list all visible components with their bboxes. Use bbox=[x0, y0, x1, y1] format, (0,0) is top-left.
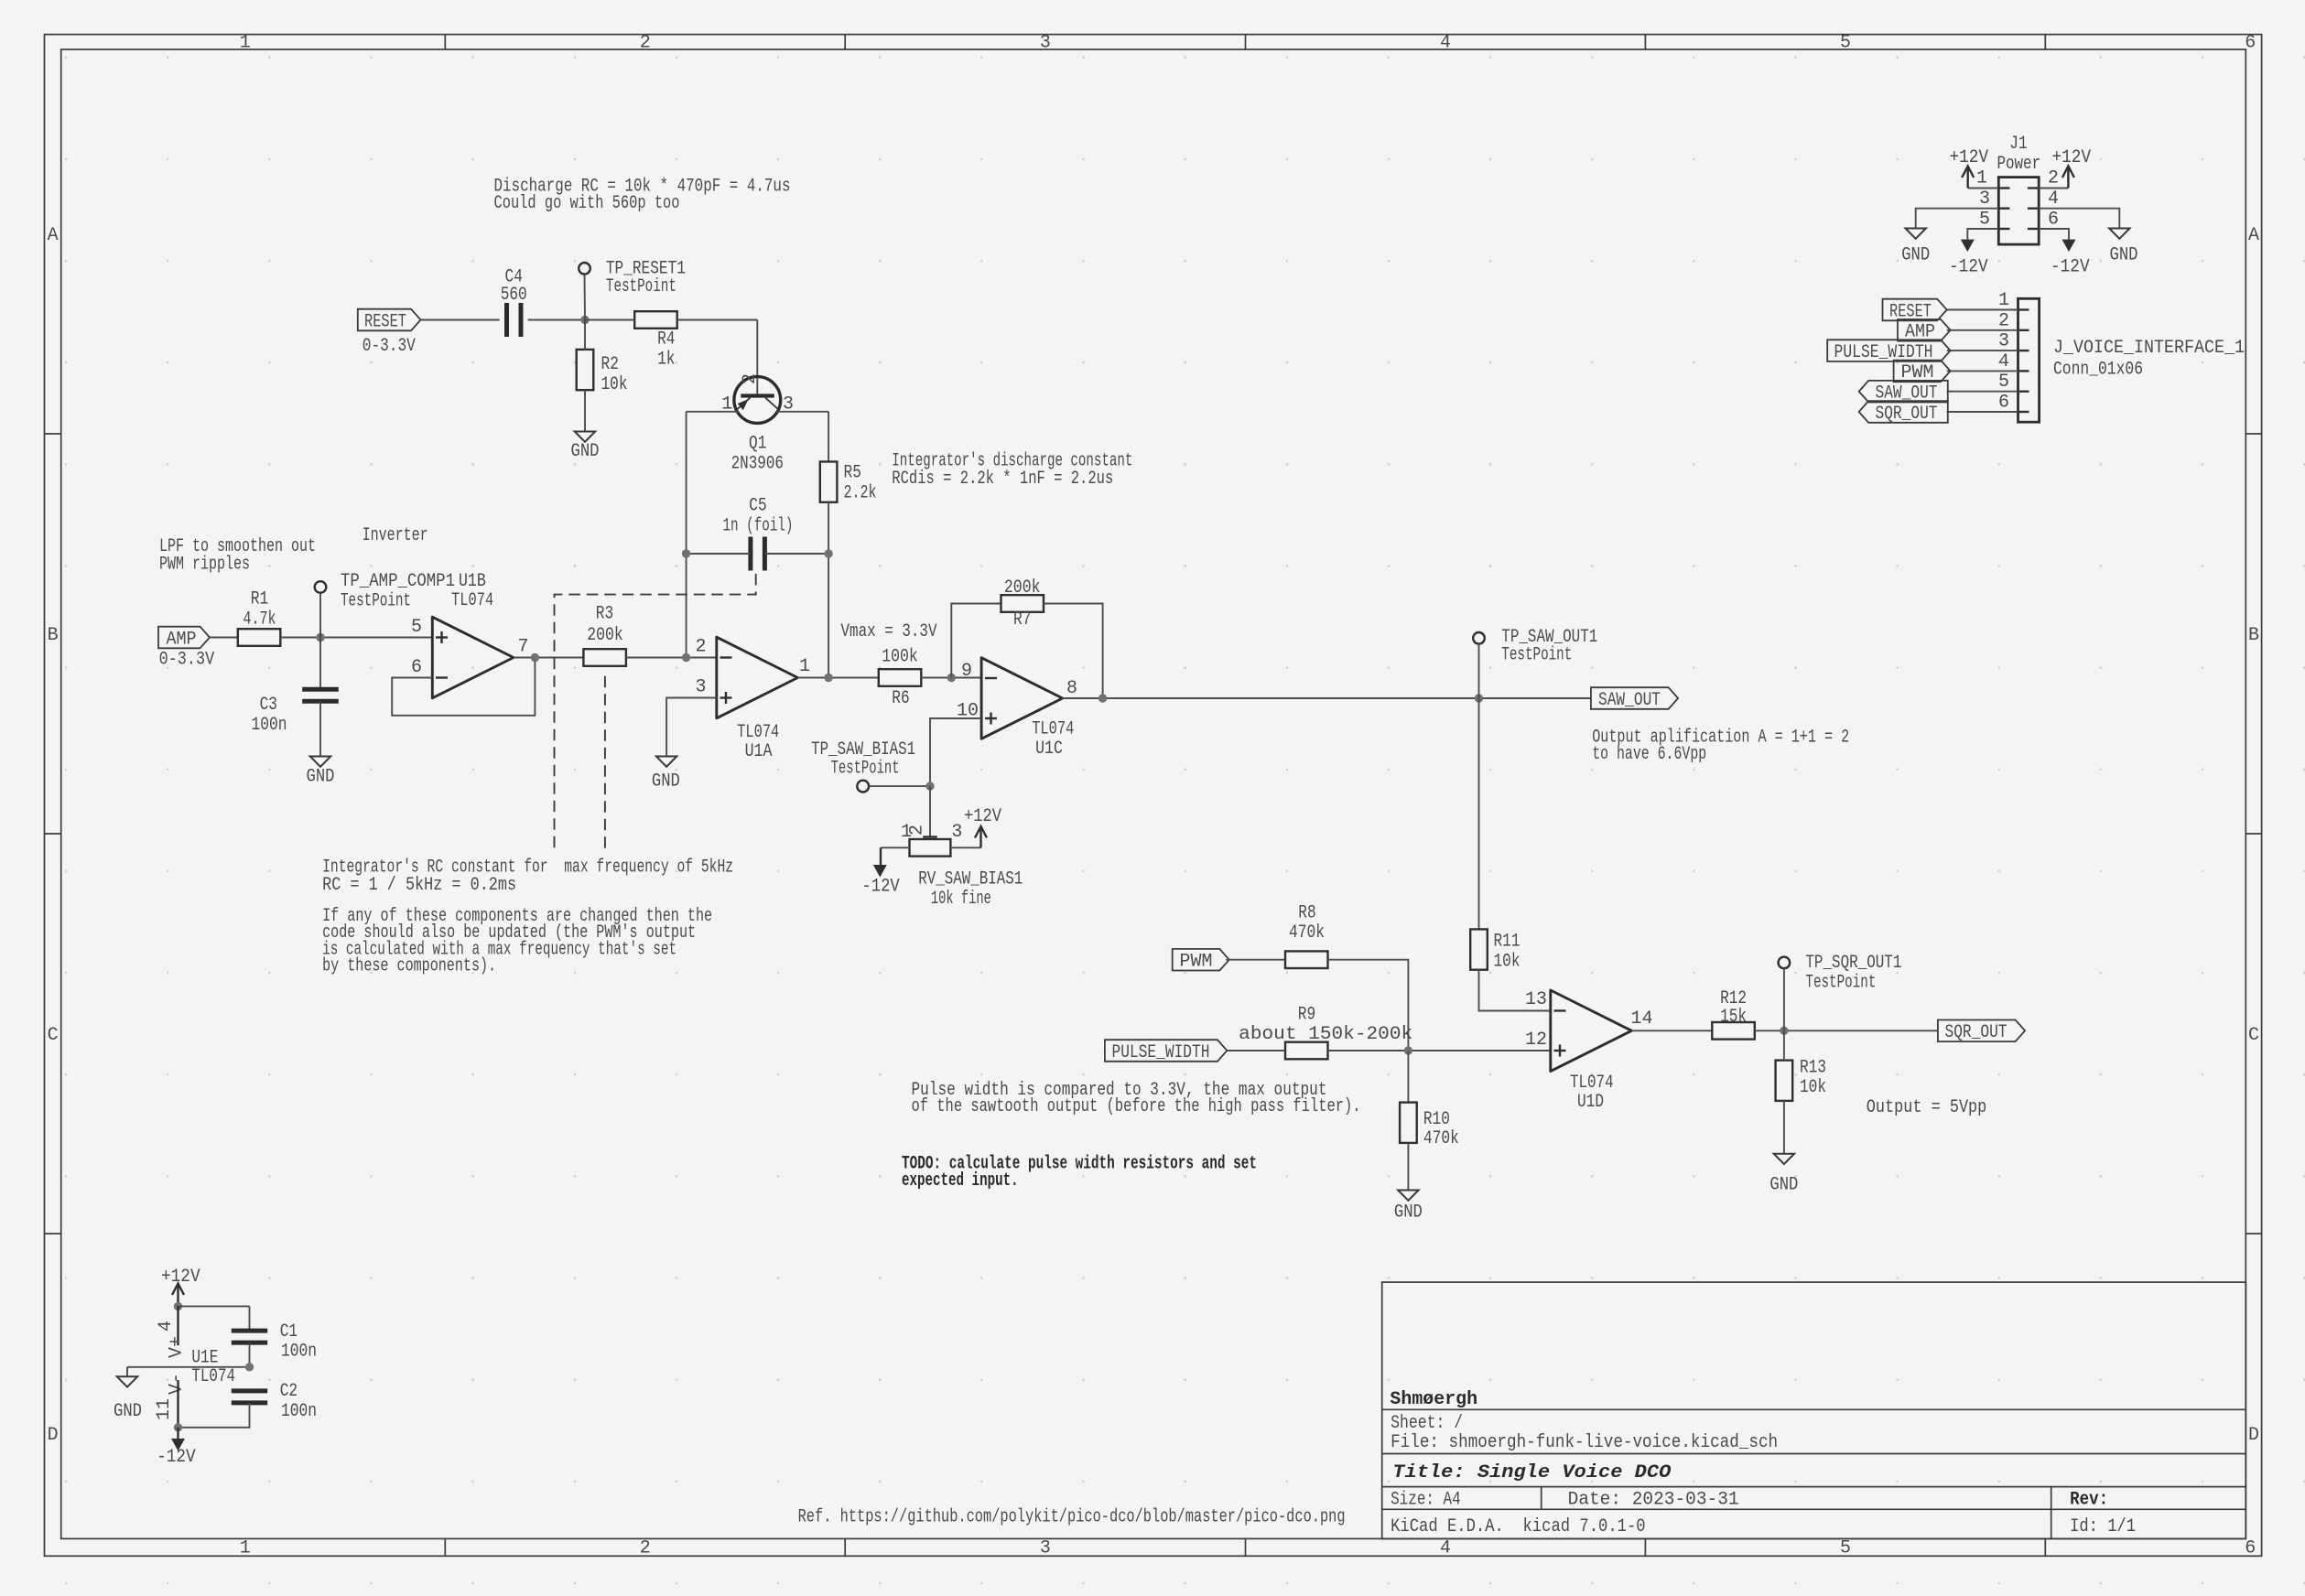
capacitor C1 bbox=[232, 1329, 267, 1333]
svg-text:Q1: Q1 bbox=[749, 434, 766, 455]
svg-text:R1: R1 bbox=[251, 589, 268, 610]
svg-text:J1: J1 bbox=[2009, 134, 2027, 155]
node +12V junction bbox=[174, 1302, 182, 1310]
node R3 out bbox=[682, 653, 690, 662]
svg-text:15k: 15k bbox=[1720, 1007, 1747, 1028]
svg-text:RC = 1 / 5kHz = 0.2ms: RC = 1 / 5kHz = 0.2ms bbox=[322, 875, 516, 896]
svg-text:10k fine: 10k fine bbox=[931, 889, 991, 910]
node R6 out bbox=[947, 674, 956, 682]
svg-text:D: D bbox=[2248, 1425, 2259, 1446]
svg-text:D: D bbox=[48, 1425, 59, 1446]
wire C5 left bbox=[687, 553, 751, 555]
wire AMP to R1 bbox=[210, 637, 238, 639]
wire R12 to SQR_OUT bbox=[1755, 1030, 1938, 1031]
wire emitter net down to C5 bbox=[686, 412, 687, 657]
op-amp U1B TL074 bbox=[432, 617, 514, 698]
svg-text:Output = 5Vpp: Output = 5Vpp bbox=[1867, 1097, 1987, 1118]
wire J1 pin4 GND bbox=[2039, 209, 2119, 229]
wire R11 to U1D pin13 bbox=[1479, 970, 1551, 1011]
svg-text:J_VOICE_INTERFACE_1: J_VOICE_INTERFACE_1 bbox=[2053, 338, 2245, 359]
svg-text:RV_SAW_BIAS1: RV_SAW_BIAS1 bbox=[918, 869, 1023, 890]
svg-text:Could go with 560p too: Could go with 560p too bbox=[494, 193, 680, 214]
power +12V right bbox=[2067, 168, 2069, 189]
power +12V left bbox=[1966, 168, 1968, 189]
svg-text:5: 5 bbox=[1840, 1538, 1851, 1559]
svg-text:-12V: -12V bbox=[1949, 257, 1988, 278]
svg-text:R11: R11 bbox=[1494, 932, 1520, 953]
global label RESET bbox=[358, 309, 421, 331]
svg-text:3: 3 bbox=[1040, 32, 1051, 53]
resistor R6 bbox=[879, 669, 922, 686]
svg-text:R9: R9 bbox=[1298, 1005, 1315, 1026]
svg-text:2: 2 bbox=[2048, 168, 2059, 189]
resistor R1 bbox=[238, 629, 281, 646]
svg-text:3: 3 bbox=[951, 822, 962, 843]
svg-text:TestPoint: TestPoint bbox=[341, 591, 411, 612]
svg-text:1k: 1k bbox=[657, 350, 675, 371]
ground J1 right bbox=[2109, 229, 2129, 239]
wire junction down to R10 bbox=[1407, 1051, 1409, 1103]
title block bbox=[1382, 1282, 2246, 1538]
svg-text:1n (foil): 1n (foil) bbox=[723, 516, 794, 537]
svg-text:TL074: TL074 bbox=[191, 1366, 235, 1387]
svg-text:GND: GND bbox=[652, 771, 680, 792]
wire pot pin1 to -12V bbox=[881, 847, 910, 848]
svg-text:GND: GND bbox=[1769, 1175, 1798, 1196]
potentiometer RV_SAW_BIAS1 bbox=[910, 839, 951, 857]
testpoint TP_RESET1 bbox=[579, 263, 590, 275]
svg-text:470k: 470k bbox=[1423, 1128, 1459, 1149]
svg-text:SAW_OUT: SAW_OUT bbox=[1598, 690, 1661, 711]
power -12V at pot bbox=[873, 865, 887, 878]
wire R9 to U1D pin12 bbox=[1328, 1050, 1551, 1051]
node mid junction bbox=[245, 1363, 254, 1371]
testpoint TP_AMP_COMP1 bbox=[315, 581, 327, 593]
svg-text:100n: 100n bbox=[281, 1401, 317, 1422]
global label AMP bbox=[158, 627, 210, 649]
resistor R10 bbox=[1400, 1103, 1417, 1143]
svg-text:-12V: -12V bbox=[2051, 257, 2090, 278]
hier label SAW_OUT bbox=[1859, 381, 1948, 403]
svg-text:0-3.3V: 0-3.3V bbox=[363, 336, 416, 357]
resistor R7 bbox=[1001, 595, 1044, 612]
ground under R10 bbox=[1398, 1191, 1418, 1201]
wire U1A output bbox=[797, 677, 878, 679]
svg-text:5: 5 bbox=[1840, 32, 1851, 53]
svg-text:Date: 2023-03-31: Date: 2023-03-31 bbox=[1568, 1490, 1739, 1511]
svg-text:by these components).: by these components). bbox=[322, 956, 496, 977]
svg-text:GND: GND bbox=[114, 1401, 142, 1422]
svg-text:4.7k: 4.7k bbox=[243, 609, 276, 631]
wire R7 feedback right bbox=[1044, 604, 1103, 699]
svg-text:A: A bbox=[2248, 225, 2259, 246]
svg-text:1: 1 bbox=[901, 822, 912, 843]
capacitor C3 bbox=[319, 638, 321, 690]
svg-text:SQR_OUT: SQR_OUT bbox=[1945, 1022, 2007, 1043]
svg-text:Title: Single Voice DCO: Title: Single Voice DCO bbox=[1392, 1462, 1671, 1483]
svg-text:GND: GND bbox=[1901, 245, 1930, 266]
svg-text:V+: V+ bbox=[167, 1336, 188, 1358]
global label PWM bbox=[1173, 949, 1229, 971]
wire Q1 emitter left bbox=[687, 411, 739, 413]
svg-text:V-: V- bbox=[167, 1373, 188, 1395]
capacitor C5 bbox=[748, 537, 752, 571]
node bias junction bbox=[925, 782, 934, 790]
power -12V U1E bbox=[177, 1428, 179, 1439]
svg-text:13: 13 bbox=[1525, 989, 1547, 1010]
power +12V at pot bbox=[979, 828, 981, 847]
svg-text:200k: 200k bbox=[1004, 577, 1041, 598]
svg-text:2.2k: 2.2k bbox=[844, 483, 877, 504]
ground U1E bbox=[126, 1367, 128, 1377]
svg-text:TL074: TL074 bbox=[737, 722, 779, 743]
wire U1C output bbox=[1063, 697, 1591, 699]
svg-text:C5: C5 bbox=[749, 496, 766, 517]
svg-text:Power: Power bbox=[1997, 154, 2041, 175]
svg-text:100k: 100k bbox=[882, 646, 918, 667]
svg-text:Conn_01x06: Conn_01x06 bbox=[2053, 360, 2143, 381]
svg-text:Inverter: Inverter bbox=[363, 525, 428, 546]
wire collector net down to R5 bbox=[828, 412, 829, 462]
svg-text:-12V: -12V bbox=[157, 1447, 196, 1468]
svg-text:TL074: TL074 bbox=[1570, 1073, 1614, 1094]
svg-text:GND: GND bbox=[307, 766, 335, 787]
wire RESET to C4 bbox=[421, 319, 500, 321]
svg-text:1: 1 bbox=[240, 1538, 251, 1559]
svg-text:expected input.: expected input. bbox=[902, 1170, 1019, 1192]
svg-text:R6: R6 bbox=[892, 688, 909, 709]
svg-text:8: 8 bbox=[1066, 678, 1077, 699]
node pulse junction bbox=[1404, 1046, 1412, 1054]
svg-text:6: 6 bbox=[1998, 393, 2009, 414]
wire Q1 collector right bbox=[776, 411, 828, 413]
svg-text:5: 5 bbox=[1998, 372, 2009, 393]
node U1A out bbox=[824, 674, 832, 682]
svg-text:3: 3 bbox=[1998, 331, 2009, 352]
wire mid rail bbox=[127, 1366, 250, 1368]
svg-text:GND: GND bbox=[571, 441, 600, 462]
svg-text:GND: GND bbox=[1394, 1202, 1423, 1224]
svg-text:560: 560 bbox=[501, 285, 527, 306]
svg-text:TestPoint: TestPoint bbox=[1501, 645, 1572, 666]
svg-text:5: 5 bbox=[411, 617, 422, 638]
svg-text:Shmøergh: Shmøergh bbox=[1390, 1389, 1477, 1410]
connector J1 Power bbox=[1998, 178, 2039, 245]
svg-text:RESET: RESET bbox=[364, 311, 406, 332]
resistor R3 bbox=[583, 649, 626, 666]
svg-text:U1A: U1A bbox=[745, 741, 773, 762]
svg-text:11: 11 bbox=[154, 1398, 175, 1420]
resistor R8 bbox=[1285, 951, 1328, 968]
node RESET_HP junction bbox=[580, 316, 589, 324]
svg-text:Ref. https://github.com/polyki: Ref. https://github.com/polykit/pico-dco… bbox=[798, 1506, 1346, 1527]
svg-text:4: 4 bbox=[2048, 189, 2059, 210]
svg-text:1: 1 bbox=[240, 32, 251, 53]
power -12V right bbox=[2062, 240, 2076, 253]
resistor R12 bbox=[1712, 1022, 1755, 1040]
svg-text:U1B: U1B bbox=[459, 571, 486, 592]
svg-text:R13: R13 bbox=[1800, 1058, 1826, 1079]
svg-text:6: 6 bbox=[2245, 32, 2256, 53]
svg-text:12: 12 bbox=[1525, 1030, 1547, 1051]
svg-text:File: shmoergh-funk-live-voice: File: shmoergh-funk-live-voice.kicad_sch bbox=[1391, 1432, 1778, 1453]
svg-text:GND: GND bbox=[2110, 245, 2138, 266]
ground J1 left bbox=[1906, 229, 1926, 239]
svg-text:+12V: +12V bbox=[2052, 147, 2092, 168]
svg-text:U1D: U1D bbox=[1577, 1092, 1604, 1113]
svg-text:KiCad E.D.A. kicad 7.0.1-0: KiCad E.D.A. kicad 7.0.1-0 bbox=[1391, 1516, 1646, 1537]
node AMP_C junction bbox=[316, 633, 324, 642]
svg-text:R10: R10 bbox=[1423, 1109, 1450, 1130]
svg-text:C3: C3 bbox=[260, 695, 277, 716]
global label SQR_OUT bbox=[1938, 1020, 2025, 1042]
wire U1B output bbox=[514, 657, 584, 659]
global label PULSE_WIDTH bbox=[1105, 1040, 1228, 1062]
testpoint TP_SAW_OUT1 bbox=[1473, 632, 1485, 644]
svg-text:C: C bbox=[2248, 1025, 2259, 1046]
svg-text:R8: R8 bbox=[1298, 902, 1315, 923]
svg-text:C: C bbox=[48, 1025, 59, 1046]
svg-text:Rev:: Rev: bbox=[2070, 1490, 2108, 1511]
wire +12V to C1 bbox=[179, 1305, 250, 1307]
svg-text:+12V: +12V bbox=[161, 1267, 200, 1288]
wire R10 to gnd bbox=[1407, 1143, 1409, 1191]
wire U1A pin3 to gnd bbox=[666, 698, 717, 757]
svg-text:2: 2 bbox=[640, 1538, 651, 1559]
svg-text:2: 2 bbox=[640, 32, 651, 53]
dashed annotation lines bbox=[555, 574, 756, 853]
svg-text:2: 2 bbox=[740, 373, 761, 384]
wire R3 to U1A bbox=[626, 657, 717, 659]
svg-text:1: 1 bbox=[799, 656, 810, 677]
transistor Q1 2N3906 bbox=[756, 320, 758, 396]
svg-text:C2: C2 bbox=[280, 1381, 298, 1402]
svg-text:Vmax = 3.3V: Vmax = 3.3V bbox=[841, 621, 937, 642]
svg-text:2: 2 bbox=[695, 637, 706, 658]
svg-text:3: 3 bbox=[1040, 1538, 1051, 1559]
wire J1 pin6 -12V bbox=[2039, 229, 2069, 240]
op-amp U1A TL074 bbox=[717, 637, 798, 718]
node C5 right bbox=[824, 549, 832, 557]
svg-text:5: 5 bbox=[1979, 210, 1990, 231]
svg-text:Size: A4: Size: A4 bbox=[1391, 1490, 1461, 1511]
svg-text:of the sawtooth output (before: of the sawtooth output (before the high … bbox=[912, 1096, 1361, 1117]
svg-text:PWM ripples: PWM ripples bbox=[159, 555, 250, 576]
hier label RESET bbox=[1883, 299, 1947, 321]
svg-text:10k: 10k bbox=[1800, 1077, 1826, 1098]
svg-text:100n: 100n bbox=[281, 1342, 317, 1363]
svg-text:R7: R7 bbox=[1013, 609, 1031, 631]
svg-text:14: 14 bbox=[1630, 1008, 1652, 1030]
svg-text:1: 1 bbox=[1998, 290, 2009, 311]
svg-text:-12V: -12V bbox=[861, 876, 899, 897]
svg-text:4: 4 bbox=[156, 1321, 177, 1332]
svg-text:3: 3 bbox=[1979, 189, 1990, 210]
hier label AMP bbox=[1898, 319, 1951, 341]
svg-text:AMP: AMP bbox=[167, 629, 197, 650]
wire pot pin3 to +12V bbox=[950, 847, 980, 848]
svg-text:TestPoint: TestPoint bbox=[606, 276, 676, 297]
svg-text:4: 4 bbox=[1440, 1538, 1451, 1559]
svg-text:470k: 470k bbox=[1289, 922, 1325, 944]
svg-text:C1: C1 bbox=[280, 1321, 298, 1343]
ground under C3 bbox=[310, 757, 330, 767]
wire PWM to R8 bbox=[1226, 959, 1285, 961]
resistor R13 bbox=[1776, 1061, 1793, 1101]
svg-text:A: A bbox=[48, 225, 59, 246]
svg-text:R2: R2 bbox=[601, 354, 619, 375]
node SQR junction bbox=[1780, 1027, 1788, 1035]
svg-text:TestPoint: TestPoint bbox=[1805, 973, 1876, 994]
svg-text:about 150k-200k: about 150k-200k bbox=[1239, 1024, 1412, 1045]
svg-text:6: 6 bbox=[411, 657, 422, 678]
svg-text:TP_SQR_OUT1: TP_SQR_OUT1 bbox=[1805, 953, 1901, 974]
wire R1 to U1B bbox=[280, 637, 432, 639]
ground under R13 bbox=[1774, 1154, 1794, 1164]
svg-text:to have 6.6Vpp: to have 6.6Vpp bbox=[1592, 744, 1706, 765]
wire U1C pin10 bbox=[930, 718, 981, 786]
svg-text:U1C: U1C bbox=[1035, 739, 1063, 760]
op-amp U1E power pins bbox=[177, 1306, 179, 1345]
testpoint TP_SQR_OUT1 bbox=[1779, 957, 1791, 969]
node -12V junction bbox=[174, 1423, 182, 1431]
wire R8 to junction bbox=[1328, 960, 1409, 1051]
svg-text:TL074: TL074 bbox=[1032, 719, 1074, 740]
capacitor C4 bbox=[504, 303, 509, 337]
svg-text:TestPoint: TestPoint bbox=[831, 758, 900, 779]
hier label PULSE_WIDTH bbox=[1827, 340, 1950, 361]
svg-text:TP_AMP_COMP1: TP_AMP_COMP1 bbox=[341, 571, 455, 592]
svg-text:+12V: +12V bbox=[1950, 147, 1989, 168]
wire J1 pin1 +12V bbox=[1968, 188, 1999, 189]
svg-text:R5: R5 bbox=[844, 463, 861, 484]
svg-text:B: B bbox=[48, 625, 59, 646]
ground under R2 bbox=[575, 432, 595, 442]
svg-text:+12V: +12V bbox=[964, 806, 1001, 827]
wire SAW down to R11 bbox=[1478, 698, 1480, 929]
resistor R11 bbox=[1470, 929, 1488, 969]
resistor R2 bbox=[577, 350, 594, 390]
svg-text:R4: R4 bbox=[657, 329, 675, 350]
svg-text:Sheet: /: Sheet: / bbox=[1391, 1413, 1463, 1434]
wire C4 to node bbox=[528, 319, 585, 321]
svg-text:RCdis = 2.2k * 1nF = 2.2us: RCdis = 2.2k * 1nF = 2.2us bbox=[892, 469, 1113, 490]
svg-text:1: 1 bbox=[1976, 168, 1987, 189]
resistor R5 bbox=[820, 462, 838, 502]
wire C2 down bbox=[179, 1403, 250, 1428]
wire wiper down bbox=[929, 786, 931, 836]
wire C5 right bbox=[764, 553, 828, 555]
svg-text:R3: R3 bbox=[596, 603, 613, 624]
svg-text:4: 4 bbox=[1440, 32, 1451, 53]
wire R7 feedback left bbox=[951, 604, 1001, 678]
wire U1D output bbox=[1631, 1030, 1712, 1031]
svg-text:0-3.3V: 0-3.3V bbox=[159, 650, 215, 671]
wire C1 to mid bbox=[249, 1343, 251, 1367]
wire U1B feedback bbox=[392, 658, 535, 716]
node C5 left bbox=[682, 549, 690, 557]
svg-text:6: 6 bbox=[2048, 210, 2059, 231]
capacitor C2 bbox=[232, 1388, 267, 1393]
svg-text:10k: 10k bbox=[601, 374, 628, 395]
node U1C out R7 bbox=[1098, 694, 1107, 702]
node U1B out bbox=[531, 653, 539, 662]
svg-text:200k: 200k bbox=[587, 625, 623, 646]
svg-text:B: B bbox=[2248, 625, 2259, 646]
ground under U1A bbox=[656, 757, 676, 767]
svg-text:7: 7 bbox=[517, 637, 528, 658]
svg-text:100n: 100n bbox=[252, 715, 287, 736]
hier label PWM bbox=[1894, 361, 1951, 383]
op-amp U1C TL074 bbox=[981, 658, 1063, 739]
node SAW tp junction bbox=[1475, 694, 1483, 702]
svg-text:3: 3 bbox=[695, 677, 706, 698]
power -12V left bbox=[1961, 240, 1975, 253]
global label SAW_OUT bbox=[1591, 687, 1678, 709]
wire J1 pin3 GND bbox=[1916, 209, 1999, 229]
svg-text:TL074: TL074 bbox=[451, 590, 493, 611]
wire J1 pin5 -12V bbox=[1967, 229, 1998, 240]
svg-text:SQR_OUT: SQR_OUT bbox=[1876, 404, 1938, 425]
svg-text:6: 6 bbox=[2245, 1538, 2256, 1559]
resistor R4 bbox=[634, 311, 677, 329]
wire J1 pin2 +12V bbox=[2039, 188, 2068, 189]
svg-text:10k: 10k bbox=[1494, 952, 1520, 973]
hier label SQR_OUT bbox=[1859, 401, 1948, 423]
wire PULSE_WIDTH to R9 bbox=[1227, 1050, 1285, 1051]
svg-text:4: 4 bbox=[1998, 351, 2009, 372]
svg-text:9: 9 bbox=[961, 661, 972, 682]
op-amp U1D TL074 bbox=[1551, 990, 1632, 1072]
svg-text:Id: 1/1: Id: 1/1 bbox=[2070, 1516, 2136, 1537]
svg-text:PWM: PWM bbox=[1180, 952, 1213, 973]
svg-text:2N3906: 2N3906 bbox=[731, 454, 784, 475]
resistor R9 bbox=[1285, 1042, 1328, 1060]
wire R6 to U1C bbox=[921, 677, 981, 679]
svg-text:2: 2 bbox=[1998, 310, 2009, 331]
connector J_VOICE_INTERFACE_1 bbox=[2018, 298, 2040, 422]
svg-text:PULSE_WIDTH: PULSE_WIDTH bbox=[1112, 1042, 1210, 1063]
